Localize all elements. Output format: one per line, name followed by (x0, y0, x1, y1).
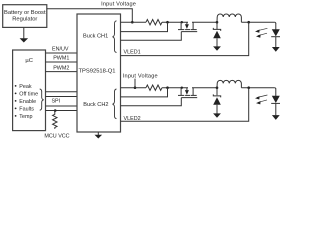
wire: CH1 switch node segment (192, 21, 217, 23)
ground arrow under D1 (213, 46, 221, 50)
brace: Buck CH1 pin group (113, 21, 117, 53)
svg-text:Peak: Peak (19, 84, 32, 90)
svg-text:EN/UV: EN/UV (52, 46, 69, 52)
transistor Q1 MOSFET (181, 21, 183, 23)
LED string CH1 (275, 23, 277, 30)
svg-text:µC: µC (25, 58, 33, 64)
ground arrow under D4 (213, 113, 221, 117)
svg-text:PWM1: PWM1 (53, 55, 69, 61)
LED D5 (272, 96, 280, 103)
microcontroller block (13, 50, 46, 131)
node: CH1 LED feed (247, 21, 250, 24)
wire: CH2 gate drive (121, 98, 182, 106)
resistor: CH2 current sense (146, 85, 162, 90)
node: CH1 switch node (216, 21, 219, 24)
inductor L1 (217, 14, 241, 22)
uC feature bullet list (15, 84, 38, 120)
wire: VLED1 sense (121, 22, 249, 55)
svg-text:Faults: Faults (19, 106, 34, 112)
node: CH2 LED feed (247, 86, 250, 89)
svg-text:Buck CH2: Buck CH2 (83, 102, 108, 108)
svg-text:Battery or Boost: Battery or Boost (4, 10, 46, 16)
wire: CH2 input stub (134, 79, 136, 88)
svg-text:Temp: Temp (19, 114, 32, 120)
wire: CH2 VIN rail (121, 87, 147, 89)
svg-text:PWM2: PWM2 (53, 66, 69, 72)
LED D2 (272, 29, 280, 36)
svg-text:VLED2: VLED2 (124, 116, 141, 122)
battery/boost regulator block U3 (3, 5, 47, 28)
node: CH2 input (134, 86, 137, 89)
svg-text:MCU VCC: MCU VCC (44, 133, 69, 139)
node: CH2 switch node (216, 86, 219, 89)
svg-text:Buck CH1: Buck CH1 (83, 34, 108, 40)
wire: CH1 gate drive (121, 32, 182, 41)
diode D4 schottky recirculating (216, 88, 218, 96)
node: SPI pull-up tap (54, 109, 57, 112)
node: CH2 post-resistor (166, 86, 169, 89)
wire: VLED2 sense (121, 88, 249, 122)
wire: CH2 CSN feedback (121, 88, 168, 97)
LED emission arrows CH2 (257, 95, 267, 102)
node: Input Voltage CH1 (131, 21, 134, 24)
wire: PWM1 line (46, 61, 78, 63)
wire arrow: battery to microcontroller (23, 27, 25, 38)
gate plate Q1 (181, 31, 197, 33)
wire: EN/UV line (46, 52, 78, 54)
svg-text:VLED1: VLED1 (124, 49, 141, 55)
svg-text:Off time: Off time (19, 91, 38, 97)
SPI bus connector (46, 91, 78, 93)
arrow: CH1 LED return (272, 47, 280, 52)
resistor R pull-up to MCU VCC (53, 111, 57, 129)
wire: battery output top rail to input voltage node (47, 9, 133, 23)
inductor L2 (217, 80, 241, 87)
gate plate Q2 (181, 97, 197, 99)
wire: CH2 switch node segment (192, 87, 217, 89)
arrow: CH2 LED return (272, 115, 280, 120)
svg-text:TPS92518-Q1: TPS92518-Q1 (78, 68, 115, 74)
svg-text:Regulator: Regulator (12, 17, 37, 23)
ground symbol under IC (97, 132, 99, 135)
wire: CH1 after sense resistor (162, 21, 188, 23)
resistor: CH1 current sense (146, 20, 162, 25)
wire: CH2 inductor to LED feed (241, 87, 274, 89)
svg-text:Enable: Enable (19, 99, 36, 105)
diode D1 schottky recirculating (216, 22, 218, 29)
wire: CH1 VIN rail from IC (121, 21, 147, 23)
LED string CH2 (275, 89, 277, 97)
brace grouping list items to SPI (40, 89, 44, 110)
brace: Buck CH2 pin group (113, 89, 117, 119)
node: CH1 post-resistor (166, 21, 169, 24)
LED emission arrows CH1 (257, 28, 267, 35)
wire: CH1 CSN feedback (121, 22, 168, 31)
TPS92518-Q1 IC block (77, 14, 121, 132)
svg-text:Input Voltage: Input Voltage (101, 1, 136, 7)
wire: PWM2 line (46, 71, 78, 73)
svg-text:SPI: SPI (51, 99, 60, 105)
svg-text:Input Voltage: Input Voltage (123, 73, 158, 79)
wire: CH1 inductor to LED feed (241, 21, 274, 23)
transistor Q2 MOSFET (181, 87, 183, 89)
wire: CH2 after sense resistor (162, 87, 188, 89)
